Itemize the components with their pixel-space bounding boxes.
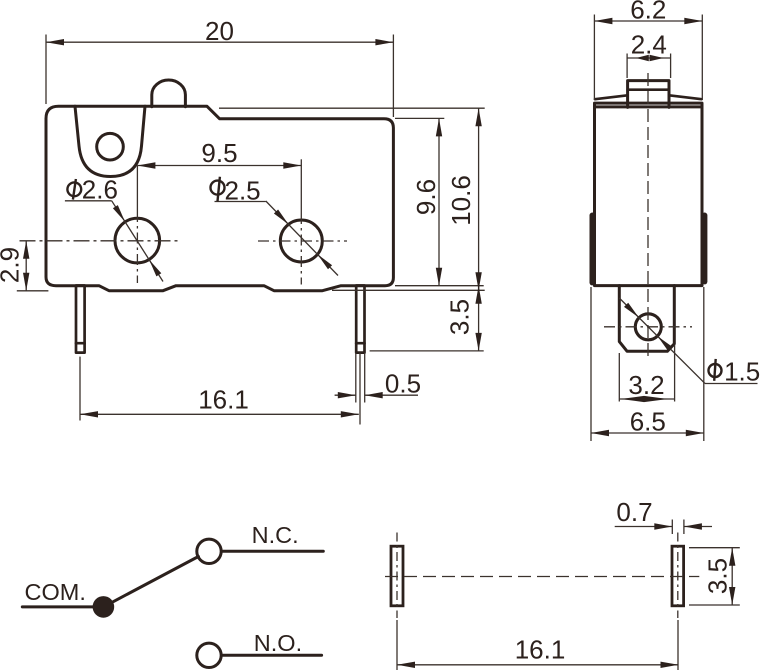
3.5 arrows <box>475 286 481 304</box>
svg-text:0.7: 0.7 <box>616 497 652 527</box>
left hole horizontal centerline <box>20 240 182 242</box>
phi1.5 leader arrows <box>624 303 639 318</box>
svg-text:10.6: 10.6 <box>446 175 476 226</box>
mounting hole phi2.6 <box>115 218 160 263</box>
svg-text:COM.: COM. <box>25 579 86 605</box>
svg-text:9.6: 9.6 <box>411 179 441 215</box>
dimension 3.5 line <box>478 286 480 351</box>
left pin crossbar <box>76 342 85 345</box>
dimension 6.5 extension lines <box>590 287 592 441</box>
COM. node dot <box>93 596 115 618</box>
dimension 10.6 line <box>478 108 480 290</box>
side view cap lower line <box>595 105 703 108</box>
2.9 arrows <box>23 241 29 259</box>
16.1 arrows <box>80 411 98 417</box>
0.5 arrows <box>338 392 356 398</box>
phi1.5 leader underline <box>705 383 758 385</box>
16.1 arrows <box>397 662 415 668</box>
dimension 0.5 extension lines <box>355 353 357 403</box>
right pin vertical centerline <box>677 533 679 619</box>
N.O. contact circle <box>197 643 221 667</box>
dimension 3.2 line <box>619 398 674 400</box>
3.5 arrows <box>729 548 735 566</box>
dimension 2.9 line <box>25 241 27 291</box>
pivot hole circle <box>97 133 124 160</box>
dimension 3.5 extension lines <box>689 547 740 549</box>
svg-text:2.4: 2.4 <box>631 30 667 60</box>
side view right clip bar <box>702 215 708 281</box>
pin pitch horizontal dashed line <box>385 576 699 578</box>
phi2.5 leader arrows <box>274 210 289 225</box>
dimension 16.1 extension lines <box>396 620 398 670</box>
svg-text:9.5: 9.5 <box>201 138 237 168</box>
phi symbol for 1.5 <box>709 359 722 381</box>
N.C. contact circle <box>197 539 221 563</box>
phi2.5 leader diagonal <box>266 201 338 276</box>
switch lever wire <box>103 557 198 607</box>
front view dimension arrowheads <box>23 39 482 418</box>
side view left shoulder slant <box>595 95 628 99</box>
switch body outline (front view) <box>46 106 393 290</box>
svg-text:N.C.: N.C. <box>252 522 299 548</box>
N.O. wire <box>222 654 322 657</box>
phi2.6 leader diagonal <box>112 201 163 282</box>
push button (front view) <box>152 80 186 107</box>
dimension 3.5 (pin length) extension line <box>370 350 484 352</box>
left terminal pin (front view) <box>76 286 85 353</box>
left pin vertical centerline <box>396 533 398 619</box>
mounting hole phi2.5 <box>280 220 322 262</box>
dimension 6.2 line <box>594 20 702 22</box>
svg-text:6.5: 6.5 <box>630 407 666 437</box>
terminal hole horizontal centerline <box>604 326 692 328</box>
svg-text:6.2: 6.2 <box>630 0 666 25</box>
side view terminal <box>619 286 674 352</box>
dimension 9.5 line <box>137 165 301 167</box>
dimension 2.9 extension lines <box>17 290 49 292</box>
phi2.6 leader arrows <box>113 205 125 222</box>
dimension 0.5 lines <box>335 394 356 396</box>
dimension 0.7 extension lines <box>671 520 673 535</box>
side view centerlines <box>604 73 692 361</box>
dimension 9.6 line <box>438 118 440 285</box>
6.2 arrows <box>594 18 612 24</box>
dimension 16.1 line <box>80 413 359 415</box>
9.5 arrows <box>137 162 155 168</box>
right terminal pin (front view) <box>356 286 364 353</box>
svg-text:0.5: 0.5 <box>385 369 421 399</box>
svg-text:2.9: 2.9 <box>0 247 25 283</box>
left hole vertical centerline <box>136 166 138 212</box>
dimension 16.1 extension lines <box>79 357 81 421</box>
side view arrowheads <box>591 18 704 436</box>
N.C. wire <box>222 550 324 553</box>
svg-text:N.O.: N.O. <box>254 630 302 656</box>
right pin crossbar <box>356 342 364 345</box>
right hole vertical centerline <box>300 159 302 213</box>
phi symbol for 2.6 <box>67 179 81 200</box>
20 arrows <box>46 39 64 45</box>
right hole horizontal centerline <box>258 240 347 242</box>
svg-text:2.5: 2.5 <box>225 176 261 206</box>
3.2 bowtie arrows <box>621 396 645 402</box>
svg-text:20: 20 <box>205 16 234 46</box>
svg-text:1.5: 1.5 <box>724 356 760 386</box>
svg-text:3.5: 3.5 <box>445 299 475 335</box>
terminal hole phi1.5 <box>635 314 661 340</box>
side view dimension texts <box>628 0 760 437</box>
svg-text:3.5: 3.5 <box>703 558 733 594</box>
centerlines of front view holes <box>20 159 348 284</box>
side view left clip bar <box>589 215 595 282</box>
svg-text:2.6: 2.6 <box>82 174 118 204</box>
side view right shoulder slant <box>669 95 702 99</box>
dimension 0.7 lines <box>615 526 673 528</box>
front view dimension texts <box>0 16 476 415</box>
2.4 bowtie arrows <box>636 55 649 62</box>
dimension 20 extension lines <box>45 35 47 105</box>
svg-text:16.1: 16.1 <box>515 635 566 665</box>
phi symbol for 2.5 <box>211 177 225 202</box>
6.5 arrows <box>591 430 609 436</box>
side view button collar line <box>628 88 669 91</box>
svg-text:3.2: 3.2 <box>628 370 664 400</box>
dimension 3.2 extension lines <box>618 353 620 402</box>
right pin footprint <box>672 546 684 606</box>
dimension 2.4 extension lines <box>626 54 628 79</box>
side view vertical centerline <box>647 73 649 361</box>
left pin footprint <box>391 546 403 606</box>
side view button <box>628 81 669 108</box>
svg-text:16.1: 16.1 <box>198 385 249 415</box>
dimension 2.4 line <box>627 57 671 59</box>
dimension 6.5 line <box>591 432 704 434</box>
0.7 arrows <box>654 523 672 529</box>
dimension 20 line <box>46 41 393 43</box>
dimension 16.1 line <box>397 664 679 666</box>
pin layout arrowheads <box>397 523 735 668</box>
phi1.5 leader diagonal <box>619 298 705 384</box>
dimension 3.5 line <box>731 548 733 605</box>
COM. wire <box>22 605 95 608</box>
10.6 arrows <box>475 108 481 126</box>
side view body <box>595 103 703 286</box>
phi2.6 leader underline <box>65 200 112 202</box>
dimension 9.6 extension lines <box>395 117 444 119</box>
dimension 6.2 extension lines <box>593 15 595 101</box>
dimension 10.6 extension lines <box>219 107 485 109</box>
phi2.5 leader underline <box>215 201 266 203</box>
lever pivot holder (front view) <box>75 106 145 176</box>
9.6 arrows <box>436 118 442 136</box>
